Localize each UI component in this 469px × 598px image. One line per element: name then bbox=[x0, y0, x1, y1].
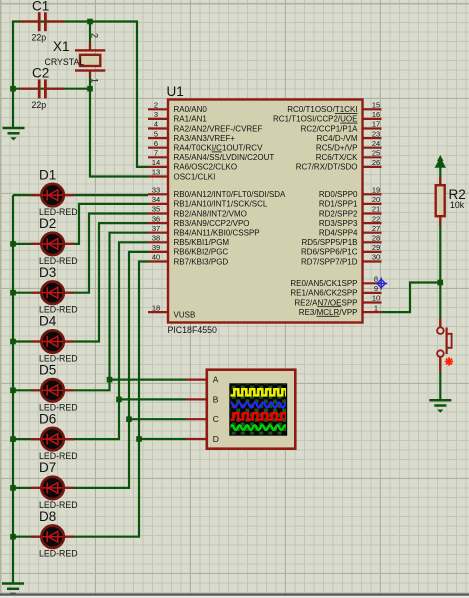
junction scope B tap bbox=[116, 397, 122, 403]
svg-text:D8: D8 bbox=[39, 509, 56, 524]
svg-text:22: 22 bbox=[372, 214, 380, 223]
svg-text:RD0/SPP0: RD0/SPP0 bbox=[319, 190, 358, 199]
svg-text:RB3/AN9/CCP2/VPO: RB3/AN9/CCP2/VPO bbox=[174, 219, 250, 228]
junction LED bus D8 bbox=[10, 534, 16, 540]
wire R2 net upper bbox=[439, 168, 441, 328]
svg-text:36: 36 bbox=[152, 214, 160, 223]
svg-text:RE2/AN7/OESPP: RE2/AN7/OESPP bbox=[294, 298, 357, 307]
U1 pin 8 RE0 bbox=[363, 282, 382, 284]
LED D5 bbox=[31, 363, 78, 413]
junction LED bus D3 bbox=[10, 290, 16, 296]
svg-text:RC7/RX/DT/SDO: RC7/RX/DT/SDO bbox=[296, 163, 358, 172]
svg-text:RA0/AN0: RA0/AN0 bbox=[174, 105, 208, 114]
oscilloscope body bbox=[207, 370, 295, 449]
wire C1/OSC2 net bbox=[13, 22, 148, 167]
ground (button) bbox=[429, 400, 451, 413]
svg-text:3: 3 bbox=[154, 110, 158, 119]
svg-text:RD5/SPP5/P1B: RD5/SPP5/P1B bbox=[301, 238, 357, 247]
junction scope A tap bbox=[107, 377, 113, 383]
svg-text:D3: D3 bbox=[39, 265, 56, 280]
svg-text:RD3/SPP3: RD3/SPP3 bbox=[319, 219, 358, 228]
U1 pin 14 RA6 bbox=[148, 166, 168, 168]
wire scope B tap bbox=[119, 398, 186, 400]
push button bbox=[437, 318, 452, 371]
svg-text:2: 2 bbox=[154, 101, 158, 110]
U1 pin 25 RC6 bbox=[363, 156, 382, 158]
svg-text:A: A bbox=[213, 375, 219, 385]
oscilloscope pin A bbox=[186, 379, 207, 381]
svg-text:RC4/D-/VM: RC4/D-/VM bbox=[317, 134, 358, 143]
U1 pin 40 RB7 bbox=[148, 260, 168, 262]
svg-text:RA1/AN1: RA1/AN1 bbox=[174, 115, 208, 124]
U1 pin 21 RD2 bbox=[363, 212, 382, 214]
svg-text:13: 13 bbox=[152, 168, 160, 177]
svg-text:29: 29 bbox=[372, 243, 380, 252]
wire D6-RB5 bbox=[13, 242, 148, 439]
svg-text:RB4/AN11/KBI0/CSSPP: RB4/AN11/KBI0/CSSPP bbox=[174, 229, 260, 238]
svg-text:RC1/T1OSI/CCP2/UOE: RC1/T1OSI/CCP2/UOE bbox=[273, 115, 357, 124]
svg-text:5: 5 bbox=[154, 129, 158, 138]
power symbol VCC arrow bbox=[435, 155, 446, 168]
LED D6 bbox=[31, 411, 78, 461]
svg-text:40: 40 bbox=[152, 253, 160, 262]
op-amp U1 PIC18F4550 body bbox=[168, 100, 363, 323]
svg-text:D1: D1 bbox=[39, 167, 56, 182]
svg-text:CRYSTAL: CRYSTAL bbox=[45, 57, 85, 67]
LED D2 bbox=[31, 216, 78, 266]
U1 pin 29 RD6 bbox=[363, 251, 382, 253]
LED D1 bbox=[31, 167, 78, 217]
U1 pin 35 RB2 bbox=[148, 212, 168, 214]
svg-text:D6: D6 bbox=[39, 411, 56, 426]
U1 pin 24 RC5 bbox=[363, 147, 382, 149]
svg-text:RB2/AN8/INT2/VMO: RB2/AN8/INT2/VMO bbox=[174, 209, 247, 218]
svg-text:C: C bbox=[213, 414, 219, 424]
svg-text:VUSB: VUSB bbox=[174, 311, 196, 320]
svg-text:RB6/KBI2/PGC: RB6/KBI2/PGC bbox=[174, 248, 229, 257]
oscilloscope pin D bbox=[186, 438, 207, 440]
wire scope D tap bbox=[139, 438, 186, 440]
U1 pin 2 RA0 bbox=[148, 108, 168, 110]
svg-text:RC0/T1OSO/T1CKI: RC0/T1OSO/T1CKI bbox=[287, 105, 357, 114]
svg-text:15: 15 bbox=[372, 101, 380, 110]
U1 pin 37 RB4 bbox=[148, 232, 168, 234]
svg-text:22p: 22p bbox=[32, 100, 47, 110]
U1 pin 28 RD5 bbox=[363, 241, 382, 243]
svg-text:7: 7 bbox=[154, 149, 158, 158]
U1 pin 23 RC4 bbox=[363, 137, 382, 139]
svg-text:34: 34 bbox=[152, 195, 160, 204]
svg-text:RA3/AN3/VREF+: RA3/AN3/VREF+ bbox=[174, 134, 236, 143]
U1 pin 38 RB5 bbox=[148, 241, 168, 243]
U1 pin 20 RD1 bbox=[363, 203, 382, 205]
svg-text:14: 14 bbox=[152, 158, 160, 167]
LED D8 bbox=[31, 509, 78, 559]
svg-text:4: 4 bbox=[154, 120, 158, 129]
svg-text:9: 9 bbox=[374, 284, 378, 293]
U1 pin 9 RE1 bbox=[363, 292, 382, 294]
junction MCLR / R2 line bbox=[438, 280, 444, 286]
svg-text:33: 33 bbox=[152, 186, 160, 195]
svg-text:C2: C2 bbox=[32, 66, 49, 81]
junction LED bus D6 bbox=[10, 436, 16, 442]
wire crystal pin1 stub bbox=[89, 70, 91, 89]
svg-text:RE3/MCLR/VPP: RE3/MCLR/VPP bbox=[299, 308, 358, 317]
svg-text:RA6/OSC2/CLKO: RA6/OSC2/CLKO bbox=[174, 163, 238, 172]
svg-text:30: 30 bbox=[372, 253, 380, 262]
wire D7-RB6 bbox=[13, 252, 148, 488]
svg-text:RC5/D+/VP: RC5/D+/VP bbox=[316, 144, 358, 153]
svg-text:18: 18 bbox=[152, 303, 160, 312]
svg-text:RE0/AN5/CK1SPP: RE0/AN5/CK1SPP bbox=[290, 279, 357, 288]
svg-text:RE1/AN6/CK2SPP: RE1/AN6/CK2SPP bbox=[290, 289, 357, 298]
U1 pin 1 RE3 bbox=[363, 311, 382, 313]
svg-text:OSC1/CLKI: OSC1/CLKI bbox=[174, 172, 216, 181]
U1 pin 5 RA3 bbox=[148, 137, 168, 139]
wire scope C tap bbox=[129, 418, 186, 420]
svg-text:RB7/KBI3/PGD: RB7/KBI3/PGD bbox=[174, 257, 229, 266]
svg-text:1: 1 bbox=[90, 78, 100, 83]
wire D5-RB4 bbox=[13, 233, 148, 391]
oscilloscope pin C bbox=[186, 418, 207, 420]
svg-text:28: 28 bbox=[372, 234, 380, 243]
svg-text:20: 20 bbox=[372, 195, 380, 204]
waveform channel B (blue) bbox=[229, 402, 293, 407]
U1 pin 3 RA1 bbox=[148, 118, 168, 120]
svg-text:RC6/TX/CK: RC6/TX/CK bbox=[316, 153, 358, 162]
svg-text:LED-RED: LED-RED bbox=[39, 549, 78, 559]
wire button to ground bbox=[439, 357, 441, 401]
wire C2/OSC1 net bbox=[13, 89, 148, 177]
crystal X1 bbox=[45, 33, 106, 83]
wire D2-RB1 bbox=[13, 204, 148, 244]
svg-text:C1: C1 bbox=[32, 0, 49, 14]
U1 pin 16 RC1 bbox=[363, 118, 382, 120]
junction LED bus D2 bbox=[10, 241, 16, 247]
U1 pin 17 RC2 bbox=[363, 127, 382, 129]
U1 pin 18 VUSB bbox=[148, 311, 168, 313]
U1 pin 19 RD0 bbox=[363, 193, 382, 195]
svg-text:23: 23 bbox=[372, 129, 380, 138]
svg-text:26: 26 bbox=[372, 158, 380, 167]
wire crystal pin2 branch bbox=[89, 22, 91, 51]
svg-text:D4: D4 bbox=[39, 314, 57, 329]
capacitor C2 bbox=[20, 66, 64, 111]
U1 pin 7 RA5 bbox=[148, 156, 168, 158]
svg-text:1: 1 bbox=[374, 303, 378, 312]
svg-text:37: 37 bbox=[152, 224, 160, 233]
svg-text:RA2/AN2/VREF-/CVREF: RA2/AN2/VREF-/CVREF bbox=[174, 124, 263, 133]
U1 pin 15 RC0 bbox=[363, 108, 382, 110]
svg-text:6: 6 bbox=[154, 139, 158, 148]
ground (LED bus) bbox=[2, 584, 24, 597]
svg-text:25: 25 bbox=[372, 149, 380, 158]
wire D8-RB7 bbox=[13, 262, 148, 537]
junction LED bus D7 bbox=[10, 485, 16, 491]
svg-text:RB5/KBI1/PGM: RB5/KBI1/PGM bbox=[174, 238, 230, 247]
svg-text:38: 38 bbox=[152, 234, 160, 243]
wire LED cathode bus bbox=[12, 195, 14, 583]
oscilloscope pin B bbox=[186, 398, 207, 400]
svg-text:RB1/AN10/INT1/SCK/SCL: RB1/AN10/INT1/SCK/SCL bbox=[174, 200, 268, 209]
svg-text:RA5/AN4/SS/LVDIN/C2OUT: RA5/AN4/SS/LVDIN/C2OUT bbox=[174, 153, 275, 162]
ground (crystal net) bbox=[3, 128, 25, 141]
svg-text:24: 24 bbox=[372, 139, 380, 148]
capacitor C1 bbox=[20, 0, 64, 43]
resistor R2 bbox=[436, 177, 466, 226]
U1 pin 6 RA4 bbox=[148, 147, 168, 149]
U1 pin 39 RB6 bbox=[148, 251, 168, 253]
svg-text:RD7/SPP7/P1D: RD7/SPP7/P1D bbox=[301, 257, 358, 266]
wire D3-RB2 bbox=[13, 214, 148, 293]
svg-text:RC2/CCP1/P1A: RC2/CCP1/P1A bbox=[301, 124, 359, 133]
junction LED bus D5 bbox=[10, 388, 16, 394]
selection cursor marker at pin 8 bbox=[375, 278, 387, 290]
svg-text:X1: X1 bbox=[53, 39, 70, 54]
svg-text:PIC18F4550: PIC18F4550 bbox=[168, 325, 217, 335]
waveform channel A (yellow) bbox=[231, 389, 299, 395]
junction scope C tap bbox=[126, 416, 132, 422]
button actuator marker bbox=[445, 357, 453, 365]
U1 pin 36 RB3 bbox=[148, 222, 168, 224]
svg-text:10: 10 bbox=[372, 294, 380, 303]
U1 pin 30 RD7 bbox=[363, 260, 382, 262]
window bottom border bbox=[0, 593, 469, 595]
wire D4-RB3 bbox=[13, 223, 148, 341]
svg-text:39: 39 bbox=[152, 243, 160, 252]
svg-text:21: 21 bbox=[372, 205, 380, 214]
svg-text:RD6/SPP6/P1C: RD6/SPP6/P1C bbox=[301, 248, 358, 257]
U1 pin 4 RA2 bbox=[148, 127, 168, 129]
svg-text:10k: 10k bbox=[450, 200, 465, 210]
U1 pin 10 RE2 bbox=[363, 301, 382, 303]
svg-text:RD4/SPP4: RD4/SPP4 bbox=[319, 229, 358, 238]
svg-text:D7: D7 bbox=[39, 460, 56, 475]
svg-text:16: 16 bbox=[372, 110, 380, 119]
wire scope A tap bbox=[110, 379, 186, 381]
junction C2 left / ground bus bbox=[10, 86, 16, 92]
LED D7 bbox=[31, 460, 78, 510]
junction crystal pin2 / C1 net bbox=[87, 19, 93, 25]
junction LED bus D4 bbox=[10, 339, 16, 345]
svg-text:2: 2 bbox=[90, 33, 100, 38]
svg-text:22p: 22p bbox=[32, 33, 47, 43]
wire RE3/MCLR to R2 bbox=[382, 283, 441, 313]
svg-text:D: D bbox=[213, 434, 219, 444]
junction scope D tap bbox=[136, 436, 142, 442]
svg-text:17: 17 bbox=[372, 120, 380, 129]
junction crystal pin1 / C2 net bbox=[87, 86, 93, 92]
svg-text:U1: U1 bbox=[167, 84, 184, 99]
svg-text:27: 27 bbox=[372, 224, 380, 233]
wire D1-RB0 bbox=[13, 194, 148, 196]
U1 pin 34 RB1 bbox=[148, 203, 168, 205]
svg-text:B: B bbox=[213, 394, 219, 404]
U1 pin 26 RC7 bbox=[363, 166, 382, 168]
U1 pin 33 RB0 bbox=[148, 193, 168, 195]
oscilloscope screen bbox=[229, 383, 287, 435]
svg-text:RD2/SPP2: RD2/SPP2 bbox=[319, 209, 358, 218]
svg-text:D2: D2 bbox=[39, 216, 56, 231]
waveform channel D (green) bbox=[230, 425, 291, 429]
U1 pin 22 RD3 bbox=[363, 222, 382, 224]
svg-text:19: 19 bbox=[372, 186, 380, 195]
svg-text:D5: D5 bbox=[39, 363, 56, 378]
svg-text:RA4/T0CKI/C1OUT/RCV: RA4/T0CKI/C1OUT/RCV bbox=[174, 144, 264, 153]
svg-text:35: 35 bbox=[152, 205, 160, 214]
svg-text:RD1/SPP1: RD1/SPP1 bbox=[319, 200, 358, 209]
U1 pin 13 OSC1 bbox=[148, 175, 168, 177]
LED D3 bbox=[31, 265, 78, 315]
U1 pin 27 RD4 bbox=[363, 232, 382, 234]
svg-text:RB0/AN12/INT0/FLT0/SDI/SDA: RB0/AN12/INT0/FLT0/SDI/SDA bbox=[174, 190, 287, 199]
LED D4 bbox=[31, 314, 78, 364]
waveform channel C (red) bbox=[231, 413, 301, 419]
